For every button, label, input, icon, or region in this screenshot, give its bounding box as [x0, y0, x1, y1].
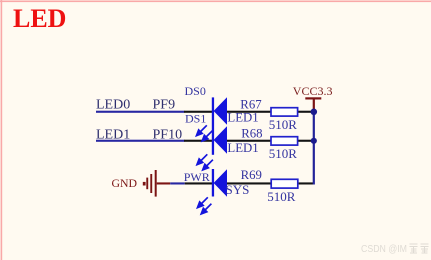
- value 510R (R69): [267, 189, 296, 204]
- wire row3 (blue segment): [170, 182, 185, 184]
- title LED: [13, 4, 66, 33]
- ground: [143, 170, 170, 197]
- net label SYS: [226, 182, 250, 197]
- svg-text:510R: 510R: [267, 189, 296, 204]
- wire R69 to VCC rail corner: [299, 182, 314, 184]
- wire PWR anode to R69: [227, 182, 271, 184]
- wire DS1 anode to R68: [227, 140, 271, 142]
- wire net LED0 (blue segment): [96, 111, 185, 113]
- label R67: [240, 97, 262, 111]
- svg-text:R67: R67: [240, 97, 262, 111]
- svg-text:GND: GND: [112, 176, 138, 190]
- svg-text:DS1: DS1: [185, 111, 206, 125]
- wire DS0 anode to R67: [227, 111, 271, 113]
- LED DS1 emission arrows: [197, 154, 213, 170]
- net label LED1 row1: [227, 111, 258, 125]
- watermark: [361, 243, 429, 255]
- value 510R (R67): [269, 117, 298, 132]
- LED DS1: [214, 126, 227, 154]
- LED PWR cathode bar: [212, 169, 214, 197]
- resistor R69: [271, 179, 298, 188]
- svg-text:510R: 510R: [269, 146, 298, 161]
- svg-text:R68: R68: [241, 127, 262, 141]
- pin label PF10: [153, 128, 183, 143]
- LED DS0 designator: [185, 84, 206, 98]
- wire net LED1 (blue segment): [96, 140, 185, 142]
- wire row1 left (black segment to DS0 cathode): [184, 111, 213, 113]
- node LED0: [96, 98, 130, 113]
- label R68: [241, 127, 262, 141]
- node LED1: [96, 128, 130, 143]
- svg-text:LED: LED: [13, 4, 66, 33]
- svg-text:LED0: LED0: [96, 98, 130, 113]
- svg-text:PWR: PWR: [184, 170, 210, 184]
- resistor R67: [271, 108, 298, 116]
- svg-text:VCC3.3: VCC3.3: [293, 84, 333, 98]
- pin label PF9: [153, 98, 176, 113]
- value 510R (R68): [269, 146, 298, 161]
- LED PWR emission arrows: [198, 197, 212, 214]
- svg-text:R69: R69: [241, 168, 262, 182]
- wire row3 left (black segment to PWR cathode): [185, 182, 213, 184]
- svg-text:PF9: PF9: [153, 98, 176, 113]
- resistor R68: [271, 137, 298, 145]
- LED PWR designator: [184, 170, 210, 184]
- LED DS0: [214, 97, 227, 125]
- svg-text:LED1: LED1: [227, 141, 258, 155]
- node GND: [112, 176, 138, 190]
- junction node at R67/rail: [311, 109, 318, 116]
- svg-text:DS0: DS0: [185, 84, 206, 98]
- LED PWR: [214, 169, 227, 197]
- wire R68 to VCC rail: [298, 140, 315, 142]
- label R69: [241, 168, 262, 182]
- svg-text:510R: 510R: [269, 117, 298, 132]
- net label LED1 row2: [227, 141, 258, 155]
- LED DS0/DS1 shared cathode bar: [212, 97, 214, 154]
- net VCC3.3 label: [293, 84, 333, 98]
- LED DS0 emission arrows: [197, 125, 213, 141]
- LED DS1 designator: [185, 111, 206, 125]
- wire VCC vertical rail: [313, 110, 315, 185]
- svg-text:CSDN @IM: CSDN @IM: [361, 243, 407, 255]
- power port VCC3.3: [305, 97, 321, 110]
- wire row2 left (black segment to DS1 cathode): [184, 140, 213, 142]
- junction node at R68/rail: [311, 138, 317, 144]
- wire R67 to VCC rail: [298, 111, 315, 113]
